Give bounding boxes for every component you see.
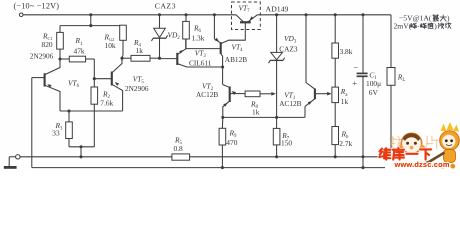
svg-text:1.3k: 1.3k bbox=[192, 33, 205, 42]
svg-text:CIL611: CIL611 bbox=[189, 58, 212, 67]
svg-text:1k: 1k bbox=[252, 107, 260, 116]
svg-text:CAZ3: CAZ3 bbox=[155, 2, 176, 11]
svg-text:www.dzsc.com: www.dzsc.com bbox=[394, 160, 450, 169]
svg-text:AB12B: AB12B bbox=[225, 55, 247, 64]
svg-text:150: 150 bbox=[281, 138, 292, 147]
svg-text:10k: 10k bbox=[105, 41, 116, 50]
svg-text:CAZ3: CAZ3 bbox=[279, 45, 298, 54]
svg-text:+: + bbox=[352, 78, 357, 88]
svg-text:33: 33 bbox=[52, 129, 60, 138]
svg-text:820: 820 bbox=[42, 40, 53, 49]
svg-text:3.8k: 3.8k bbox=[340, 47, 353, 56]
svg-text:47k: 47k bbox=[74, 46, 85, 55]
svg-text:AC12B: AC12B bbox=[196, 90, 218, 99]
svg-text:1k: 1k bbox=[136, 46, 144, 55]
svg-text:470: 470 bbox=[226, 138, 237, 147]
svg-text:2N2906: 2N2906 bbox=[30, 51, 54, 60]
svg-text:−: − bbox=[353, 62, 358, 72]
svg-text:6V: 6V bbox=[369, 88, 379, 97]
svg-text:2.7k: 2.7k bbox=[339, 139, 352, 148]
svg-text:(−10~ −12V): (−10~ −12V) bbox=[14, 1, 60, 10]
svg-text:2N2906: 2N2906 bbox=[125, 84, 149, 93]
svg-text:7.6k: 7.6k bbox=[100, 99, 113, 108]
svg-text:AC12B: AC12B bbox=[279, 99, 301, 108]
svg-text:AD149: AD149 bbox=[266, 5, 289, 14]
svg-text:100μ: 100μ bbox=[366, 79, 381, 88]
svg-text:2mV(: 2mV( bbox=[394, 21, 412, 30]
svg-text:0.8: 0.8 bbox=[174, 144, 184, 153]
svg-text:1k: 1k bbox=[341, 97, 349, 106]
